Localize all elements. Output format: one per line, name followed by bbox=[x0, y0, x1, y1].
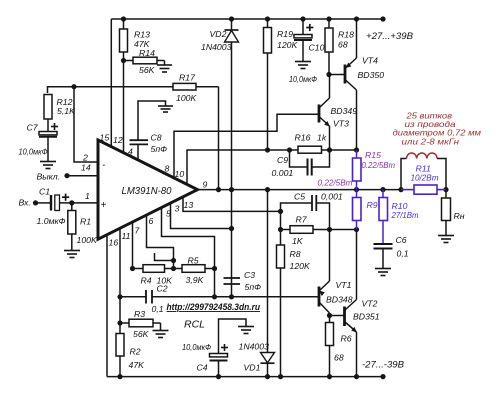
diode VD2 1N4003 bbox=[231, 19, 233, 30]
svg-text:Выкл.: Выкл. bbox=[37, 172, 61, 182]
resistor R16 bbox=[268, 149, 299, 151]
svg-text:C6: C6 bbox=[396, 235, 407, 245]
node VD1 top on output bbox=[265, 187, 270, 192]
resistor R18 bbox=[328, 19, 330, 28]
trimmer wiper of R4 bbox=[155, 253, 174, 261]
capacitor C2 bbox=[120, 296, 146, 298]
resistor R14 bbox=[124, 60, 134, 62]
svg-text:9: 9 bbox=[203, 180, 208, 190]
svg-text:R5: R5 bbox=[188, 256, 199, 266]
svg-text:0,1: 0,1 bbox=[152, 304, 164, 314]
node VT1 collector / VT2 base / R6 bbox=[327, 313, 332, 318]
svg-text:68: 68 bbox=[334, 353, 344, 363]
node pin3 to VD2 column bbox=[229, 226, 234, 231]
capacitor C9 bbox=[290, 150, 308, 167]
node input dot bbox=[33, 200, 38, 205]
node R15 bottom on output bbox=[354, 187, 359, 192]
resistor R11 (purple) parallel bbox=[401, 189, 414, 191]
diode VD1 1N4003 bbox=[267, 190, 269, 352]
svg-text:5пФ: 5пФ bbox=[245, 282, 262, 292]
svg-text:C3: C3 bbox=[244, 270, 255, 280]
svg-text:120K: 120K bbox=[290, 261, 311, 271]
resistor R10 (purple) bbox=[382, 190, 384, 198]
svg-text:VT1: VT1 bbox=[336, 280, 352, 290]
transistor VT4 BD350 bbox=[329, 74, 345, 76]
svg-text:15: 15 bbox=[100, 133, 110, 143]
node R4 right R5 left bbox=[171, 266, 176, 271]
svg-text:1: 1 bbox=[85, 191, 90, 201]
svg-text:LM391N-80: LM391N-80 bbox=[122, 186, 172, 197]
node Vykl dot bbox=[64, 173, 69, 178]
svg-text:0,22/5Вт: 0,22/5Вт bbox=[318, 178, 353, 188]
svg-text:C8: C8 bbox=[151, 133, 162, 143]
capacitor C1 bbox=[36, 202, 52, 204]
svg-text:56K: 56K bbox=[133, 329, 150, 339]
svg-text:5,1K: 5,1K bbox=[57, 106, 76, 116]
resistor R8 bbox=[280, 211, 282, 245]
svg-text:R19: R19 bbox=[277, 29, 293, 39]
resistor R12 bbox=[44, 95, 52, 120]
svg-text:VD2: VD2 bbox=[210, 29, 227, 39]
node C9 left drop bbox=[287, 147, 292, 152]
svg-text:1N4003: 1N4003 bbox=[201, 42, 232, 52]
ground below R1 bbox=[64, 250, 80, 252]
svg-text:C9: C9 bbox=[277, 155, 288, 165]
resistor R9 (purple) bbox=[356, 190, 358, 198]
wire positive supply top rail bbox=[111, 18, 383, 20]
svg-text:1K: 1K bbox=[292, 236, 304, 246]
svg-text:C1: C1 bbox=[39, 187, 50, 197]
node R13 bottom / R14 / pin12 junction bbox=[121, 58, 126, 63]
wire output line from op-amp apex bbox=[198, 189, 402, 191]
resistor R5 bbox=[182, 265, 205, 273]
svg-text:0,001: 0,001 bbox=[321, 192, 343, 202]
node coil left bbox=[398, 187, 403, 192]
svg-text:4: 4 bbox=[128, 147, 133, 157]
svg-text:10: 10 bbox=[175, 169, 185, 179]
wire pin15 riser to top rail bbox=[110, 19, 112, 147]
svg-text:VT3: VT3 bbox=[333, 119, 349, 129]
svg-text:VT4: VT4 bbox=[362, 56, 378, 66]
resistor R13 bbox=[123, 19, 125, 29]
capacitor C5 bbox=[281, 203, 313, 211]
node R1 top bbox=[69, 200, 74, 205]
svg-text:13: 13 bbox=[184, 200, 194, 210]
wire pin7 drop bbox=[132, 222, 134, 269]
capacitor C4 electrolytic with ground bbox=[219, 319, 247, 354]
svg-text:R18: R18 bbox=[338, 30, 354, 40]
svg-text:1k: 1k bbox=[317, 133, 327, 143]
svg-text:или 2-8 мкГн: или 2-8 мкГн bbox=[402, 137, 460, 147]
node R9 bottom / VT2 collector bbox=[354, 227, 359, 232]
svg-text:10,0мкФ: 10,0мкФ bbox=[19, 147, 48, 157]
svg-text:1N4003: 1N4003 bbox=[239, 342, 270, 352]
svg-text:0.001: 0.001 bbox=[272, 168, 294, 178]
svg-text:C10: C10 bbox=[309, 43, 325, 53]
node C2 line C3 bottom bbox=[229, 294, 234, 299]
node R13 top junction bbox=[121, 16, 126, 21]
svg-text:10,0мкФ: 10,0мкФ bbox=[182, 342, 211, 352]
node R16 right / VT3 emitter bbox=[327, 147, 332, 152]
svg-text:5пФ: 5пФ bbox=[151, 144, 168, 154]
resistor R7 bbox=[281, 229, 291, 231]
ground for C4 bbox=[238, 326, 254, 328]
node coil right bbox=[443, 187, 448, 192]
capacitor C8 bbox=[130, 139, 149, 141]
svg-text:-27...-39В: -27...-39В bbox=[362, 360, 405, 371]
capacitor C10 electrolytic bbox=[302, 19, 304, 35]
wire pin8 to VT3 base bbox=[174, 114, 319, 178]
wire pin12 riser bbox=[123, 61, 125, 153]
node top rail end dot bbox=[380, 16, 385, 21]
svg-text:+: + bbox=[101, 200, 107, 211]
wire pin14 lead bbox=[67, 175, 98, 177]
svg-text:R8: R8 bbox=[290, 249, 301, 259]
transistor VT3 BD349 bbox=[318, 105, 321, 123]
wire pin6 jog bbox=[147, 215, 174, 261]
svg-text:R14: R14 bbox=[139, 48, 155, 58]
resistor R17 bbox=[173, 83, 196, 90]
svg-text:68: 68 bbox=[338, 40, 348, 50]
resistor R19 bbox=[267, 19, 269, 28]
node R10 top on output bbox=[380, 187, 385, 192]
wire pin3 jog bbox=[171, 203, 232, 229]
svg-text:10,0мкФ: 10,0мкФ bbox=[289, 74, 317, 84]
node R17 bottom on output bbox=[216, 187, 221, 192]
svg-text:Rн: Rн bbox=[454, 211, 465, 221]
node VD2 column on output bbox=[229, 187, 234, 192]
svg-text:R1: R1 bbox=[80, 217, 91, 227]
node C2 line pin11 bbox=[117, 294, 122, 299]
svg-text:6: 6 bbox=[149, 216, 154, 226]
svg-text:47K: 47K bbox=[129, 360, 146, 370]
node R5 right bbox=[212, 266, 217, 271]
svg-text:R9: R9 bbox=[367, 200, 378, 210]
svg-text:C4: C4 bbox=[197, 363, 208, 373]
svg-text:R2: R2 bbox=[130, 347, 141, 357]
node C2 line pin5 column bbox=[212, 294, 217, 299]
wire R16 right to VT4 emitter column bbox=[330, 149, 357, 151]
svg-text:C2: C2 bbox=[157, 284, 168, 294]
svg-text:0.22/5Вт: 0.22/5Вт bbox=[362, 160, 396, 170]
svg-text:3: 3 bbox=[175, 204, 180, 214]
svg-text:R4: R4 bbox=[141, 276, 152, 286]
wire pin10 row to R16 bbox=[187, 150, 268, 184]
svg-text:BD350: BD350 bbox=[358, 70, 385, 80]
ground below C6 bbox=[375, 268, 391, 270]
svg-text:12: 12 bbox=[113, 135, 123, 145]
svg-text:100K: 100K bbox=[77, 235, 98, 245]
resistor R1 bbox=[71, 203, 73, 211]
wire pin13 jog bbox=[183, 197, 281, 212]
svg-text:2: 2 bbox=[82, 153, 88, 163]
capacitor C7 electrolytic bbox=[47, 119, 49, 132]
node wiper junction bbox=[171, 258, 176, 263]
wire pin2 riser and lead bbox=[74, 87, 98, 162]
wire pin11 drop bbox=[119, 228, 121, 333]
resistor R6 bbox=[329, 316, 331, 323]
node pin2 riser junction bbox=[71, 84, 76, 89]
inductor L1 coil (red) with frame bbox=[401, 159, 407, 190]
capacitor C6 bbox=[374, 243, 393, 245]
resistor R3 bbox=[120, 322, 129, 324]
node R7 right / VT1 emitter column bbox=[327, 227, 332, 232]
wire R17 row from R12 corner bbox=[48, 87, 174, 93]
svg-text:100K: 100K bbox=[176, 93, 197, 103]
resistor R4 bbox=[133, 268, 144, 270]
svg-text:C7: C7 bbox=[27, 123, 39, 133]
svg-text:14: 14 bbox=[81, 163, 91, 173]
ground below C10 bbox=[295, 61, 311, 63]
ground after R14 bbox=[164, 61, 166, 66]
svg-text:R6: R6 bbox=[341, 334, 352, 344]
node R4 left bbox=[130, 266, 135, 271]
svg-text:56K: 56K bbox=[139, 65, 156, 75]
ground for C8 bbox=[158, 105, 173, 107]
svg-text:BD349: BD349 bbox=[331, 106, 358, 116]
svg-text:RCL: RCL bbox=[184, 319, 205, 331]
ground below C7 bbox=[40, 161, 56, 163]
svg-text:VT2: VT2 bbox=[362, 299, 378, 309]
node pin13 / C5 / R8 bbox=[278, 209, 283, 214]
resistor Rn load bbox=[445, 190, 447, 198]
op-amp U1 LM391N-80 triangle bbox=[98, 140, 198, 239]
svg-text:R17: R17 bbox=[179, 73, 196, 83]
svg-text:8: 8 bbox=[165, 164, 170, 174]
svg-text:16: 16 bbox=[109, 238, 119, 248]
node R18 bottom / VT4 base / VT3 collector bbox=[326, 72, 331, 77]
svg-text:R16: R16 bbox=[295, 133, 311, 143]
wire pin16 drop bbox=[106, 235, 108, 377]
svg-text:http://299792458.3dn.ru: http://299792458.3dn.ru bbox=[167, 302, 261, 312]
svg-text:0,1: 0,1 bbox=[397, 249, 409, 259]
ground after R3 bbox=[153, 330, 169, 332]
svg-text:C5: C5 bbox=[294, 192, 305, 202]
svg-text:11: 11 bbox=[122, 231, 131, 241]
wire pin5 jog bbox=[162, 208, 215, 297]
svg-text:BD348: BD348 bbox=[326, 295, 353, 305]
svg-text:R13: R13 bbox=[134, 30, 150, 40]
svg-text:R3: R3 bbox=[134, 309, 145, 319]
svg-text:VD1: VD1 bbox=[244, 363, 261, 373]
resistor R15 (purple) bbox=[356, 150, 358, 158]
node R19 bottom / pin10 / R16 left bbox=[265, 147, 270, 152]
transistor VT1 BD348 bbox=[329, 230, 331, 282]
wire negative supply bottom rail bbox=[107, 376, 383, 378]
svg-text:120K: 120K bbox=[277, 40, 298, 50]
svg-text:Вх.: Вх. bbox=[19, 198, 31, 208]
svg-text:3,9K: 3,9K bbox=[186, 275, 205, 285]
svg-text:R15: R15 bbox=[365, 150, 381, 160]
capacitor C3 bbox=[224, 277, 241, 279]
resistor R2 bbox=[116, 334, 124, 357]
node R3 row on pin11 drop bbox=[117, 320, 122, 325]
node bottom rail dots bbox=[117, 374, 122, 379]
ground below Rn bbox=[438, 235, 454, 237]
svg-text:R7: R7 bbox=[296, 215, 308, 225]
svg-text:+27...+39В: +27...+39В bbox=[366, 31, 414, 42]
svg-text:10/2Вт: 10/2Вт bbox=[411, 173, 439, 183]
svg-text:27/1Вт: 27/1Вт bbox=[391, 210, 419, 220]
svg-text:BD351: BD351 bbox=[353, 312, 380, 322]
transistor VT2 BD351 bbox=[330, 315, 345, 317]
svg-text:1.0мкФ: 1.0мкФ bbox=[37, 216, 66, 226]
node R15 top / VT4 emitter bbox=[354, 147, 359, 152]
